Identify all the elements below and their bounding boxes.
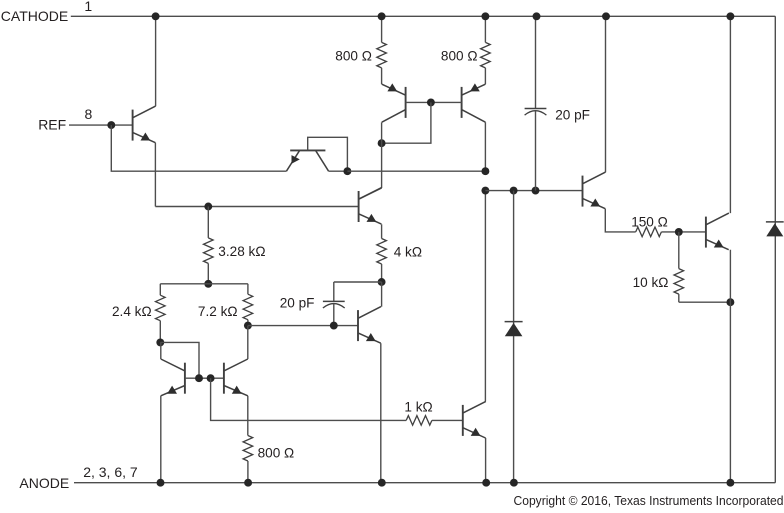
svg-text:2.4 kΩ: 2.4 kΩ (112, 304, 152, 319)
svg-text:1 kΩ: 1 kΩ (404, 400, 432, 415)
node REF pin 8 (38, 106, 132, 133)
wire Q6 emitter down (160, 396, 162, 483)
wire Q11 collector to rail (729, 16, 731, 213)
resistor 800ohm left (335, 16, 386, 84)
wire bias line to right PNP collector (347, 170, 485, 172)
junction dot mirror base left (195, 374, 203, 382)
wire Q10 emitter down (605, 209, 635, 232)
transistor Q9 driver (463, 401, 486, 438)
copyright notice (514, 493, 784, 508)
svg-text:4 kΩ: 4 kΩ (394, 245, 422, 260)
junction dot Q9 emitter rail (482, 479, 490, 487)
wire Q2 collector to node (329, 170, 348, 172)
transistor Q4 (359, 188, 382, 225)
junction dot 800ohm right rail (481, 12, 489, 20)
node CATHODE pin 1 (1, 0, 93, 24)
wire divider bar (160, 283, 248, 285)
wire Q2 base loop (308, 137, 348, 171)
resistor 800ohm bottom (243, 396, 294, 483)
wire right vertical rail (774, 16, 776, 482)
wire 7.2k node to Q7 base (248, 325, 358, 327)
junction dot Q1 collector rail (152, 12, 160, 20)
resistor 150ohm (631, 214, 706, 236)
transistor Q5 PNP right (462, 83, 486, 122)
svg-text:10 kΩ: 10 kΩ (633, 275, 669, 290)
transistor Q6 mirror left (161, 359, 185, 396)
junction dot 2.4k bottom (156, 338, 164, 346)
resistor 1kohm (404, 400, 462, 426)
resistor 10kohm (633, 232, 731, 302)
wire bottom anode rail (74, 482, 775, 484)
transistor Q11 output (706, 213, 729, 250)
svg-text:1: 1 (84, 0, 92, 14)
wire Q6 collector up (160, 342, 162, 359)
svg-text:ANODE: ANODE (19, 475, 69, 491)
junction dot Q11 emitter rail (726, 479, 734, 487)
junction dot REF node (107, 121, 115, 129)
junction dot divider mid (204, 280, 212, 288)
junction dot 800ohm rail (244, 479, 252, 487)
resistor 7.2kohm (198, 284, 253, 326)
resistor 800ohm right (441, 16, 490, 84)
junction dot diode rail (510, 479, 518, 487)
junction dot cap right bottom (532, 187, 540, 195)
transistor Q3 PNP left (382, 83, 406, 122)
svg-text:7.2 kΩ: 7.2 kΩ (198, 304, 238, 319)
junction dot Q3 collector (378, 139, 386, 147)
junction dot 10k emitter node (726, 298, 734, 306)
junction dot 3.28k top (204, 203, 212, 211)
node ANODE pins 2 3 6 7 (19, 464, 137, 491)
junction dot Q6 emitter rail (157, 479, 165, 487)
junction dot bias node (481, 167, 489, 175)
junction dot 150ohm node (675, 228, 683, 236)
wire Q3 collector vertical (381, 122, 383, 188)
wire Q1 collector to rail (155, 16, 157, 106)
svg-text:8: 8 (85, 106, 93, 122)
svg-text:20 pF: 20 pF (555, 108, 590, 123)
resistor 2.4kohm (112, 284, 165, 343)
junction dot bias node 2 (481, 187, 489, 195)
junction dot diode top (510, 187, 518, 195)
wire top cathode rail (71, 15, 776, 17)
resistor 3.28kohm (204, 207, 266, 284)
svg-text:150 Ω: 150 Ω (631, 214, 668, 229)
wire REF down-right to PNP emitter (111, 125, 286, 171)
svg-text:800 Ω: 800 Ω (258, 445, 295, 460)
svg-text:3.28 kΩ: 3.28 kΩ (218, 244, 265, 259)
junction dot mirror base right (207, 374, 215, 382)
wire Q8 collector up (247, 326, 249, 359)
svg-text:CATHODE: CATHODE (1, 8, 68, 24)
wire mirror base down (382, 102, 431, 143)
wire bottom mirror base (185, 377, 224, 379)
junction dot Q2 collector-base (343, 167, 351, 175)
junction dot Q11 collector rail (726, 12, 734, 20)
svg-text:20 pF: 20 pF (280, 295, 315, 310)
svg-text:800 Ω: 800 Ω (441, 48, 478, 63)
junction dot mirror base (427, 98, 435, 106)
wire Q9 collector vertical (484, 191, 486, 402)
wire Q4 collector diag (359, 188, 382, 199)
wire Q4 emitter down (381, 224, 383, 238)
junction dot 800ohm left rail (378, 12, 386, 20)
transistor Q8 mirror right (224, 359, 248, 396)
capacitor 20pF left (280, 282, 382, 326)
transistor Q10 (583, 172, 606, 209)
wire Q11 emitter down (729, 250, 731, 483)
capacitor 20pF right (525, 16, 590, 190)
junction dot cap bottom (330, 322, 338, 330)
wire Q9 emitter down (485, 438, 487, 483)
wire Q1 emitter to Q4 base (155, 206, 358, 208)
junction dot Q10 collector rail (602, 12, 610, 20)
junction dot 7.2k bottom (244, 322, 252, 330)
wire mirror base to 1k (211, 378, 407, 420)
wire Q7 collector up (381, 282, 383, 307)
svg-text:REF: REF (38, 117, 66, 133)
wire Q10 collector to rail (605, 16, 607, 172)
wire Q5 collector vertical (484, 122, 486, 171)
svg-text:800 Ω: 800 Ω (335, 48, 372, 63)
wire Q1 emitter down (154, 143, 156, 207)
wire bias to Q10 base (485, 190, 582, 192)
diode D2 (766, 222, 784, 237)
transistor Q1 (133, 106, 156, 143)
diode D1 (505, 191, 523, 483)
resistor 4kohm (377, 239, 422, 283)
transistor Q2 lateral PNP (286, 150, 328, 171)
junction dot Q7 emitter rail (378, 479, 386, 487)
svg-text:Copyright © 2016, Texas Instru: Copyright © 2016, Texas Instruments Inco… (514, 493, 784, 508)
junction dot cap right rail (533, 12, 541, 20)
svg-text:2, 3, 6, 7: 2, 3, 6, 7 (83, 464, 138, 480)
wire mirror diode link (160, 342, 199, 378)
wire mirror base (406, 101, 462, 103)
junction dot 4k bottom (378, 278, 386, 286)
wire Q7 emitter down (380, 343, 382, 483)
transistor Q7 (358, 307, 381, 344)
